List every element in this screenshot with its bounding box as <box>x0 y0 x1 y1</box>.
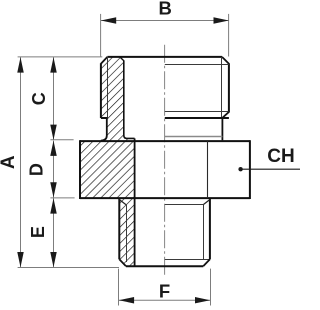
CH leader line <box>241 168 300 170</box>
chamfer tangent ring top (thin) <box>165 64 229 66</box>
svg-text:D: D <box>27 163 47 176</box>
hex right vertex edge <box>249 140 251 199</box>
hatched section: upper body wall <box>101 57 135 141</box>
lower chamfer tangent ring (thin) <box>165 259 210 261</box>
dimension C line with arrows <box>53 57 55 140</box>
lower body bottom face <box>126 265 203 267</box>
lower thread runout chamfer right <box>203 200 210 205</box>
chamfer tangent ring above shoulder (thin) <box>165 111 229 113</box>
dimension E line with arrows <box>53 198 55 267</box>
dimension D line with arrows <box>53 141 55 198</box>
thread root line right (thin) <box>221 57 223 118</box>
extension line F left <box>118 269 120 306</box>
neck left with flare fillet <box>101 118 107 141</box>
svg-text:CH: CH <box>267 146 294 167</box>
upper body top face <box>107 56 222 58</box>
centerline (vertical axis, dash-dot) <box>164 45 166 278</box>
hatched section: hex wall <box>80 141 135 198</box>
neck fillet tangent ring (thin) <box>165 136 223 138</box>
lower body crest right <box>209 198 211 259</box>
lower body bottom-right chamfer <box>203 259 210 266</box>
hex left vertex edge <box>79 140 81 199</box>
hex face edge right <box>207 141 209 198</box>
upper body bottom-right chamfer <box>222 112 229 118</box>
svg-text:F: F <box>159 281 170 302</box>
hex bottom edge <box>80 197 250 199</box>
dimension B line with arrows <box>101 20 229 22</box>
extension line top (A/C at part top face) <box>18 56 103 58</box>
extension line B right <box>228 14 230 57</box>
upper body top-left chamfer <box>101 57 108 64</box>
CH leader dot <box>238 167 242 171</box>
bore wall upper (left, sectioned) with bottom fillet <box>124 60 135 138</box>
extension line hex top (C/D) <box>50 139 73 141</box>
lower body crest left <box>118 198 120 259</box>
lower thread root left (thin) <box>126 205 128 263</box>
upper body crest right <box>228 63 230 112</box>
upper body shoulder line right <box>165 117 229 119</box>
upper body top-right chamfer <box>222 57 229 64</box>
lower thread root right (thin) <box>203 205 205 260</box>
bore entry chamfer top-left <box>120 57 124 61</box>
bore wall through hex and lower body (sectioned) <box>134 138 136 265</box>
extension line hex bottom (D/E) <box>50 197 74 199</box>
hex top edge <box>80 140 250 142</box>
dimension F line with arrows <box>119 299 210 301</box>
upper body shoulder step left <box>101 117 108 119</box>
extension line B left <box>100 14 102 57</box>
lower thread runout chamfer left <box>119 200 126 205</box>
upper body crest left <box>100 63 102 118</box>
thread root line left (thin) <box>107 57 109 118</box>
lower body bottom-left chamfer <box>119 259 126 266</box>
svg-text:E: E <box>28 226 48 238</box>
lower runout tangent ring (thin) <box>165 204 204 206</box>
neck right <box>221 118 223 140</box>
svg-text:C: C <box>29 92 49 105</box>
svg-text:B: B <box>159 0 172 18</box>
extension line bottom (A/E at part bottom face) <box>18 267 119 269</box>
svg-text:A: A <box>0 155 19 169</box>
dimension A line with arrows <box>20 57 22 267</box>
extension line F right <box>210 269 212 306</box>
hatched section: lower body wall <box>119 198 134 266</box>
